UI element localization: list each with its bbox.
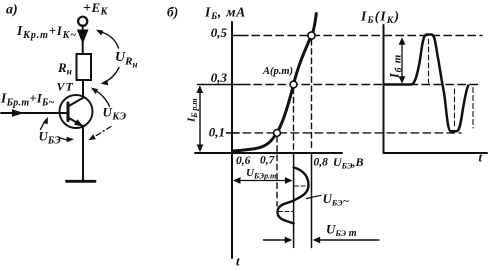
transistor VT base bar [67,103,70,121]
voltage arc URn upper [98,31,119,48]
dashed level 0.1 [243,132,461,134]
svg-text:IБ, мА: IБ, мА [204,5,246,23]
sine right peak marker [295,185,309,187]
svg-text:0,3: 0,3 [211,70,228,85]
wire collector supply [82,25,84,54]
svg-text:0,6: 0,6 [236,155,251,167]
supply terminal +Ek [78,17,87,26]
current arrow Ik [77,30,89,45]
x axis graph v [384,152,488,154]
time axis below point A [293,153,295,248]
svg-text:0,7: 0,7 [260,155,276,167]
transistor VT circle [60,95,93,128]
dashed vertical below point A [293,88,295,150]
input sine Ube~ [278,168,309,224]
emitter wire [82,127,84,182]
measure arrow Ubem right part [315,239,380,241]
wire resistor to collector [82,80,84,99]
dashed level 0.3 [254,84,479,86]
svg-text:t: t [479,150,483,165]
dashed level 0.5 [252,35,482,37]
dashed vertical below 0.1 point [276,137,278,207]
ground [67,180,96,183]
svg-text:VT: VT [57,80,74,94]
tick 0.5 [232,35,248,37]
svg-text:б): б) [167,5,178,20]
transistor VT emitter lead [68,118,84,127]
tick 0.1 [227,132,240,134]
level 0.3 left extension [198,84,251,86]
measure arrow Ibm [401,40,403,82]
svg-text:t: t [236,254,240,269]
output waveform Ib [384,35,468,132]
svg-text:0,5: 0,5 [211,25,228,40]
dashed vertical right of trough [472,88,474,129]
trough centerline dash [454,89,456,129]
y axis graph v [383,25,385,153]
voltage arc URn lower [104,68,120,83]
point 0.5 circle [308,32,315,39]
voltage arrow Ube right [58,137,71,140]
resistor Rn [77,54,92,80]
transistor VT collector lead [68,98,84,107]
svg-text:а): а) [6,3,18,18]
measure arrow Ibr.t [199,87,201,150]
leader line Ube~ [307,195,322,198]
voltage arrow Ube left [41,120,47,130]
measure arrow Uber.t [235,180,292,182]
point 0.1 circle [274,130,281,137]
voltage arc Uke upper [93,89,110,106]
transistor VT emitter arrow [74,119,83,126]
dashed vertical below 0.5 point [311,40,313,151]
sine left peak marker [279,211,293,213]
vertical line at 0.8 below axis [311,155,313,248]
operating point A circle [290,81,297,88]
transfer characteristic curve [233,14,316,152]
svg-text:IБ(IК): IБ(IК) [360,9,400,27]
svg-text:А(р.т): А(р.т) [262,66,293,77]
x axis graph b [195,152,342,154]
current arrow Ib [12,109,24,116]
measure arrow Ubem left part [264,239,291,241]
base wire [1,112,68,114]
svg-text:0,8: 0,8 [314,157,329,169]
peak centerline dash [428,39,430,83]
y axis graph b [231,22,233,258]
svg-text:0,1: 0,1 [209,125,225,140]
voltage arc Uke lower dash-dot [92,127,112,139]
